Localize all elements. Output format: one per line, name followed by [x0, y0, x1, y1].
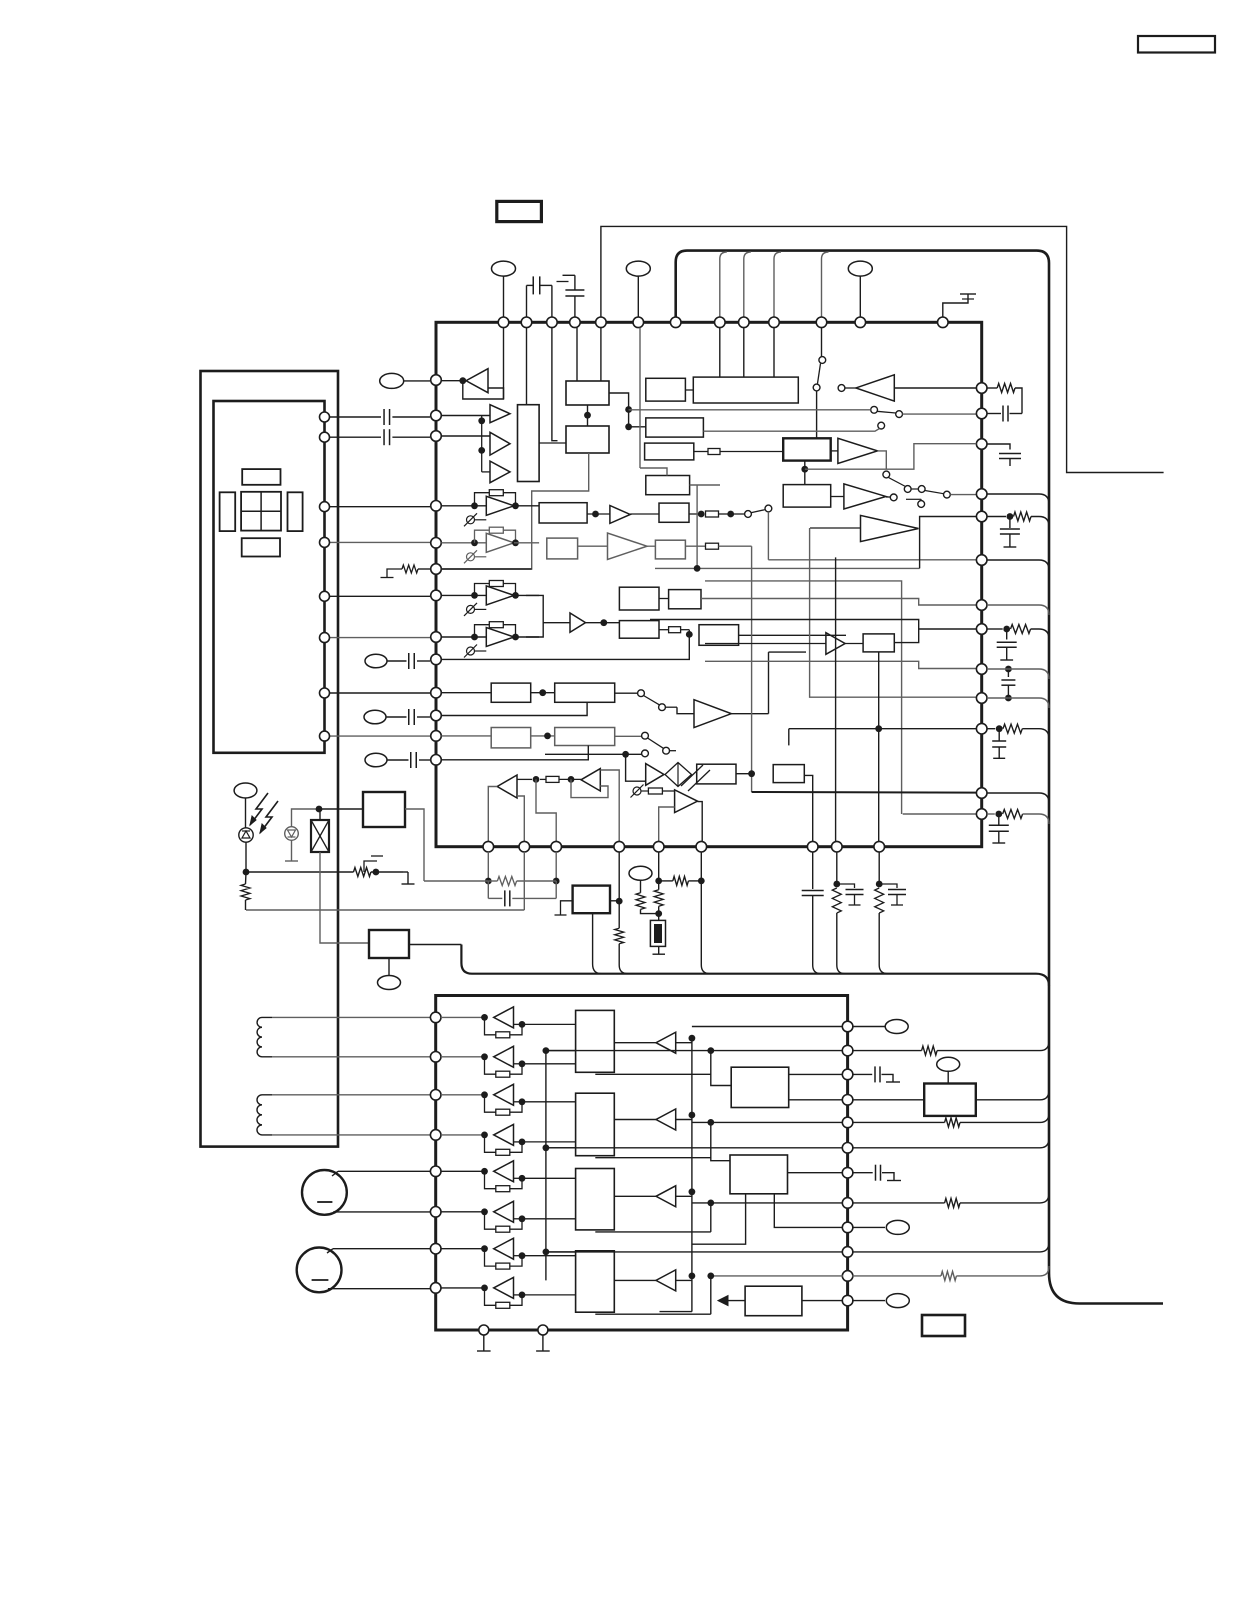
block RN	[655, 540, 685, 559]
small amp row 643	[705, 643, 826, 645]
resistor R208	[354, 868, 371, 877]
wire pin1 stem	[503, 328, 505, 399]
wire G3-G4	[531, 735, 555, 737]
amp AIN5	[441, 1170, 485, 1172]
wire lamp gnd	[291, 840, 293, 861]
wire bus drop 2	[744, 252, 751, 317]
amp A1 feedback	[463, 381, 504, 399]
block F1	[619, 587, 659, 610]
wire row10	[441, 692, 491, 694]
wire rr3	[789, 1073, 843, 1075]
wire J2 b	[328, 1288, 431, 1290]
wire row9 long	[441, 634, 689, 659]
vert x878	[878, 652, 880, 842]
solenoid L201	[311, 820, 329, 852]
block BB2	[783, 485, 831, 508]
TP ellipse P108	[629, 866, 652, 880]
wire b658 stem	[658, 852, 660, 881]
amp A9 feedback row	[633, 787, 641, 795]
wire A9 stair2	[659, 807, 675, 841]
right pins	[976, 383, 987, 394]
wire B1-B2	[587, 405, 589, 426]
top pins	[498, 317, 509, 328]
block RE	[646, 476, 690, 495]
block G3	[491, 728, 531, 748]
wire attn in	[626, 754, 646, 781]
block RD	[645, 443, 694, 460]
resistor R207	[241, 884, 250, 900]
wire head row8	[325, 735, 431, 737]
ground bus below IC	[461, 945, 1036, 974]
op-amp A3 row	[441, 542, 486, 544]
block F2	[669, 590, 701, 609]
wire A9 out2	[698, 802, 703, 842]
amp AIN6	[441, 1211, 485, 1213]
amp AIN8	[441, 1287, 485, 1289]
head cell top	[242, 469, 280, 485]
wire row r605	[701, 599, 976, 606]
wire MOT out	[405, 809, 424, 881]
TP ellipse P101	[492, 261, 516, 276]
block RA	[646, 378, 686, 401]
wire BB1 dn	[804, 461, 806, 485]
wire row14	[545, 753, 642, 755]
wire rr8	[692, 1202, 843, 1204]
wire A5-A6	[526, 623, 543, 637]
res cap pair b836	[836, 852, 838, 884]
wire rr6	[546, 1147, 843, 1149]
wire row r560	[768, 559, 976, 561]
wire pin5 stem	[576, 328, 578, 381]
wire b556 stem	[555, 852, 557, 881]
wire row11	[441, 702, 587, 715]
capacitor C202	[987, 444, 1010, 450]
wire RS out	[894, 629, 918, 643]
IC2 left pins	[430, 1012, 441, 1023]
wire A10 net	[488, 787, 497, 842]
wire coil2 a	[272, 1094, 431, 1096]
wire pin2 stem	[526, 328, 528, 405]
wire RM in	[630, 513, 659, 515]
wire bus drop 3	[774, 252, 781, 317]
op-amp A4 row	[441, 594, 486, 596]
resistor R205	[987, 813, 995, 815]
wire r793 elbow	[987, 793, 1049, 803]
block EQ2a	[539, 503, 587, 523]
wire pin T6 stem	[639, 328, 641, 468]
amp A17 big	[861, 515, 919, 541]
block G1	[491, 683, 531, 702]
wire row12	[441, 735, 491, 737]
wire J1 b	[333, 1211, 430, 1213]
block MUX1	[576, 1010, 615, 1072]
wire row13	[441, 746, 588, 760]
left pins	[431, 375, 442, 386]
amp A6 mid	[570, 613, 586, 632]
amp A7 big	[694, 700, 731, 728]
wire D2 stub	[710, 1203, 712, 1232]
resistor R-A10	[533, 776, 540, 783]
wire SW4 route	[629, 409, 871, 411]
resistor R201b	[488, 880, 497, 882]
wire b619 stem	[618, 852, 620, 901]
mic jack J2	[297, 1248, 342, 1293]
wire G1-G2	[531, 692, 555, 694]
resistor R-RN	[685, 545, 705, 547]
block F3	[619, 621, 659, 639]
wire J2 a	[333, 1248, 431, 1250]
amp AB1 inv	[656, 1032, 676, 1053]
resistor R-RM	[689, 513, 701, 515]
amp AIN3	[441, 1094, 485, 1096]
wire row r814	[903, 813, 977, 815]
gnd T R208	[403, 871, 408, 873]
block B1	[566, 381, 609, 405]
label box top-left	[497, 201, 542, 221]
TP ellipse P107	[365, 753, 387, 767]
IC2 bottom pins	[479, 1325, 489, 1335]
wire sol net	[319, 808, 363, 810]
amp A11 inv	[581, 769, 600, 791]
head cell right	[288, 492, 303, 531]
wire head row7	[325, 692, 431, 694]
vert bus 691	[691, 1038, 693, 1312]
wire pin444 inside	[805, 444, 977, 470]
resistor RF3	[659, 629, 669, 631]
switch SW3 top	[821, 328, 823, 357]
lamp D202	[285, 827, 299, 841]
TP ellipse P201	[852, 1026, 885, 1028]
amp A13	[838, 438, 878, 463]
wire A11 loop	[571, 779, 608, 797]
wire OSC in	[852, 1099, 924, 1101]
amp AIN2	[441, 1056, 485, 1058]
IC2 gnd stubs	[483, 1335, 485, 1351]
wire photodiode	[245, 842, 247, 872]
switch SW6	[889, 478, 906, 487]
TP ellipse P102	[626, 261, 650, 276]
TP ellipse P203	[852, 1226, 885, 1228]
wire rr4	[789, 1099, 843, 1101]
wire r560 elbow	[987, 560, 1049, 570]
wire A7 out	[731, 713, 768, 715]
wire A6 out	[586, 622, 620, 624]
resistor R-RD	[694, 451, 708, 453]
wire rr1	[692, 1026, 843, 1028]
wire b701 stem	[701, 852, 710, 974]
block G4	[555, 728, 615, 746]
step sym R208	[364, 861, 377, 872]
wire r605 elbow	[987, 605, 1049, 615]
IC U201 outline	[436, 996, 848, 1331]
wire gray b488 left	[424, 880, 488, 882]
block BB1 bold	[783, 438, 831, 460]
wire sol dn	[320, 852, 369, 943]
wire D2 b stub	[692, 1194, 746, 1244]
capacitor C209	[812, 852, 814, 889]
capacitor C302 gnd	[852, 1172, 873, 1174]
wire b524 stem	[523, 852, 525, 910]
switch SW7	[751, 510, 764, 513]
capacitor C207	[998, 814, 1000, 825]
wire D2 net	[711, 1122, 730, 1160]
wire rr10b	[852, 1242, 1049, 1252]
wire MOT2 out	[409, 944, 461, 946]
amp A14	[844, 484, 886, 509]
wire head L+	[325, 416, 382, 418]
wire D1 net	[711, 1051, 731, 1086]
resistor R302	[852, 1121, 945, 1123]
wire buf in2	[441, 435, 490, 437]
block B2	[566, 426, 609, 453]
amp AIN4	[441, 1134, 485, 1136]
wire F1-F2	[659, 598, 669, 600]
wire A16-RN	[647, 545, 655, 547]
wire bus drop 1	[720, 252, 727, 317]
switch SW5	[878, 422, 885, 429]
amp AIN7	[441, 1248, 485, 1250]
capacitor C201 loop	[987, 413, 1001, 415]
wire row r669	[705, 661, 976, 668]
wire coil1 b	[272, 1056, 431, 1058]
IC2 right pins	[842, 1021, 853, 1032]
wire PLL down	[593, 913, 602, 974]
block MOT2 bold	[369, 930, 409, 958]
block RM	[659, 503, 689, 522]
wire rr11	[711, 1275, 843, 1277]
amp A1 inv	[466, 369, 488, 393]
wire A6-F1	[618, 598, 620, 600]
amp AIN1	[441, 1016, 485, 1018]
wire pin812 up	[804, 775, 812, 841]
amp A12 inv	[856, 375, 894, 401]
amp A15	[610, 506, 630, 524]
mechanism block outline	[201, 371, 339, 1147]
TP ellipse P204	[852, 1300, 885, 1302]
wire rr2	[546, 1050, 843, 1052]
capacitor C208	[487, 881, 489, 898]
vert bus 545	[545, 1049, 547, 1281]
wire RA link	[685, 389, 693, 391]
wire mux net a	[543, 1047, 550, 1054]
head cell left	[220, 492, 236, 531]
head cell bottom	[242, 538, 280, 556]
resistor R301	[852, 1050, 922, 1052]
block D2	[730, 1155, 788, 1194]
resistor R303	[852, 1202, 945, 1204]
wire head row4	[325, 541, 431, 543]
block MUX2	[576, 1093, 615, 1156]
block MUX3	[576, 1169, 615, 1230]
op-amp A5 row	[441, 636, 486, 638]
light arrows	[250, 793, 268, 825]
photodiode D201	[239, 828, 253, 842]
wire pd net	[246, 871, 354, 873]
step symbol near pin 942	[943, 294, 968, 317]
amp AB4 inv	[656, 1270, 676, 1291]
block eq tall	[518, 405, 540, 482]
block EQ2b	[547, 538, 578, 559]
mic jack J1	[302, 1170, 347, 1215]
res cap pair b879	[878, 852, 880, 884]
resistor R-left with gnd	[418, 568, 430, 570]
wire head L-	[325, 436, 382, 438]
bus joint	[1036, 974, 1049, 986]
wire OSC out	[976, 1090, 1049, 1100]
wire RE in	[640, 468, 667, 476]
TP ellipse P202	[937, 1057, 960, 1071]
capacitor C205 between	[1005, 666, 1012, 673]
wire RB stems	[719, 328, 721, 378]
wire rr12	[802, 1300, 843, 1302]
vert x837	[835, 557, 837, 841]
switch SW2	[615, 735, 642, 737]
TP ellipse P109	[234, 783, 257, 798]
wire A10 fb	[517, 796, 524, 841]
wire buf link	[481, 416, 483, 472]
label box top-right	[1138, 36, 1215, 53]
wire A11 top	[600, 770, 619, 841]
crystal X201	[650, 920, 665, 946]
wire buf in1	[441, 415, 490, 417]
resistor R206	[659, 880, 673, 882]
buffer B1b	[490, 432, 510, 455]
wire head row5	[325, 595, 431, 597]
record head coil 1	[257, 1017, 272, 1056]
wire A4-A6	[526, 595, 570, 622]
vert x809	[810, 528, 977, 697]
capacitor C203	[1009, 517, 1011, 529]
capacitor C-top2 with step gnd	[574, 297, 576, 318]
wire lamp top	[292, 809, 320, 827]
IC U101 outline	[436, 322, 982, 846]
wire row r629	[650, 620, 976, 630]
block MOT bold	[363, 792, 405, 827]
wire L-route from top pin	[601, 226, 1164, 472]
capacitor C301 gnd	[852, 1073, 872, 1075]
block MUX4	[576, 1251, 615, 1312]
amp AB3 inv	[656, 1186, 676, 1207]
wire rr6b	[852, 1138, 1049, 1148]
TP ellipse P106	[364, 710, 386, 724]
amp A8	[646, 764, 664, 786]
block RC	[646, 418, 704, 437]
wire r668 elbow	[987, 668, 1008, 670]
capacitor C204	[1006, 629, 1008, 640]
buffer B1a	[490, 405, 510, 423]
block RB wide	[693, 377, 798, 403]
amp AB2 inv	[656, 1109, 676, 1130]
power bus (rounded)	[676, 251, 1163, 1304]
gnd step PLL	[561, 901, 573, 915]
wire A13 out	[878, 451, 887, 470]
wire PLL out	[610, 900, 619, 902]
vert x902	[705, 581, 902, 814]
amp A10 inv	[497, 775, 517, 798]
buffer B1c	[490, 461, 510, 483]
wire H1 out	[736, 773, 752, 775]
wire bus drop 4	[822, 252, 829, 317]
wire coil2 b	[272, 1134, 431, 1136]
capacitor C-top1	[526, 285, 528, 317]
block D3	[745, 1286, 802, 1316]
block PLL bold	[573, 886, 610, 914]
wire A14 out	[886, 496, 890, 498]
wire RE out	[690, 484, 720, 486]
wire rr10	[546, 1251, 843, 1253]
resistor R202	[987, 516, 1006, 518]
head block outline	[214, 401, 325, 753]
head cell grid	[241, 492, 281, 531]
wire row r793	[752, 791, 977, 794]
block RS	[863, 634, 894, 652]
TP ellipse P110	[388, 958, 390, 975]
wire rr7	[788, 1172, 844, 1174]
op-amp A2 row	[441, 505, 486, 507]
wire r696 elbow	[987, 697, 1008, 699]
capacitor C206	[998, 729, 1000, 741]
wire rr5	[692, 1121, 843, 1123]
wire pin3 stem	[552, 328, 558, 441]
wire coil1 a	[272, 1016, 431, 1018]
resistor R204	[987, 728, 995, 730]
resistor R203	[987, 628, 1003, 630]
wire A11 stair	[536, 779, 556, 841]
block H1	[697, 764, 736, 784]
block G2	[555, 683, 615, 702]
wire r494 elbow	[987, 494, 1049, 504]
switch SW1	[615, 692, 638, 694]
amp A16 big	[608, 533, 648, 559]
wire row6 in	[441, 568, 531, 570]
resistor R201 loop	[987, 387, 997, 389]
wire head row3	[325, 506, 431, 508]
wire net top1	[493, 1016, 495, 1018]
switch SW4	[871, 406, 878, 413]
block RT	[773, 765, 804, 783]
wire row r728	[789, 728, 977, 730]
block F4	[699, 625, 739, 646]
wire pin6 stem	[600, 328, 602, 381]
photo bus	[246, 909, 524, 911]
wire J1 a	[338, 1170, 431, 1172]
resistor R304	[852, 1275, 941, 1277]
block OSC bold	[924, 1084, 976, 1116]
arrow D3	[727, 1300, 746, 1302]
record head coil 2	[257, 1095, 272, 1135]
bottom pins	[483, 841, 494, 852]
wire B2 down	[441, 453, 588, 569]
TP ellipse P105	[365, 654, 387, 668]
block D1	[731, 1067, 789, 1107]
TP ellipse P103	[848, 261, 872, 276]
amp A9	[675, 790, 698, 813]
label box bottom	[922, 1315, 965, 1336]
wire rr9	[774, 1194, 843, 1228]
wire B1 out	[609, 393, 646, 427]
attenuator	[665, 763, 692, 787]
wire b488 stem	[487, 852, 489, 881]
TP ellipse P104	[380, 373, 404, 388]
wire head row6	[325, 637, 431, 639]
inner box pins	[320, 412, 330, 422]
